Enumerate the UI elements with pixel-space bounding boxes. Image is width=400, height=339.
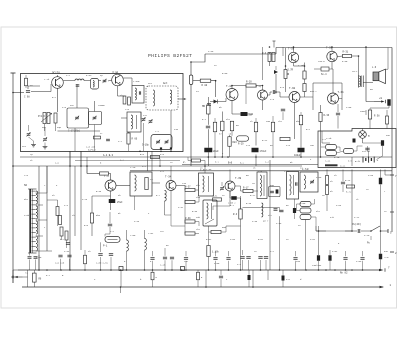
wire vert x39: [38, 166, 40, 270]
resistor R60: [127, 133, 138, 144]
svg-text:C-8: C-8: [62, 106, 67, 109]
junction dot bus: [185, 269, 187, 271]
wire extra: [171, 215, 185, 226]
wire C65 link: [222, 191, 241, 209]
label C-7 at 118,142: [118, 140, 123, 143]
label batt plus: [358, 159, 379, 163]
label L-5 at 258,172: [258, 170, 263, 173]
wire lamp leads: [362, 129, 364, 144]
junction dot: [12, 165, 14, 167]
junction dot: [214, 156, 216, 158]
label low 1: [44, 226, 46, 229]
svg-text:0.5u: 0.5u: [86, 74, 92, 77]
wire left vertical rail: [12, 73, 14, 283]
capacitor C23: [66, 243, 70, 245]
svg-text:R-37: R-37: [185, 186, 191, 189]
capacitor C66: [365, 148, 369, 150]
power box outline: [318, 129, 396, 168]
resistor R43: [65, 231, 68, 240]
wire R63 stems: [84, 250, 86, 270]
resistor R56 h: [300, 208, 311, 213]
label 1k at 72,216: [72, 214, 75, 217]
label S-5 at 125,110: [125, 108, 130, 111]
junction dot: [255, 156, 257, 158]
resistor R48 h: [185, 200, 195, 203]
svg-text:R-2: R-2: [52, 96, 57, 99]
wire R53 link: [235, 186, 258, 191]
label R37: [325, 160, 331, 163]
transistor T59: [327, 51, 337, 61]
label 0.1 at 230,206: [230, 204, 235, 207]
label 10k at 196,218: [196, 216, 201, 219]
tuner section box: [21, 74, 184, 152]
svg-text:T-39: T-39: [235, 177, 242, 180]
capacitor C40: [246, 257, 250, 259]
label 1.78k at 298,66: [298, 64, 305, 67]
resistor R0 corner: [25, 75, 28, 88]
resistor R32: [303, 71, 306, 79]
svg-text:2.: 2.: [183, 161, 186, 164]
wire extra: [92, 195, 111, 197]
label band x: [310, 158, 312, 161]
label 5n at 270,146: [270, 144, 273, 147]
resistor R28: [299, 115, 302, 125]
label 680 at 222,228: [222, 226, 227, 229]
svg-text:10k: 10k: [196, 216, 201, 219]
wire extra: [120, 287, 122, 293]
wire quad frame: [294, 48, 343, 111]
junction dot: [269, 46, 271, 48]
trimmer C6: [103, 79, 107, 83]
wire pu left: [316, 211, 357, 231]
svg-text:100u: 100u: [360, 110, 366, 113]
label C-55 at 214,264: [214, 262, 220, 265]
svg-text:C-55: C-55: [214, 262, 220, 265]
electrolytic below bus 2: [282, 270, 291, 287]
svg-text:S-6: S-6: [24, 174, 29, 177]
wire R58v stems: [369, 108, 371, 129]
svg-text:64u: 64u: [384, 250, 389, 253]
label N-11: [340, 165, 346, 168]
svg-text:R-29: R-29: [238, 143, 244, 146]
svg-text:S-1b: S-1b: [326, 137, 332, 140]
wire stage2 tops: [171, 166, 241, 186]
resistor R40: [56, 207, 59, 216]
label 0.5 at 280,88: [280, 86, 285, 89]
wire TR1 bottom drops: [30, 253, 36, 270]
volume pot P1: [103, 237, 120, 248]
label 6k8 at 296,122: [296, 120, 301, 123]
resistor bottom small: [94, 136, 101, 139]
svg-text:25uF: 25uF: [117, 201, 123, 204]
svg-text:C-28: C-28: [82, 198, 88, 201]
rounded resistor R29: [237, 136, 249, 146]
junction dot: [358, 55, 360, 57]
svg-text:C24 C25: C24 C25: [55, 262, 65, 265]
wire bus y270: [18, 269, 381, 271]
wire R54 stems: [240, 196, 242, 270]
electrolytic C21: [381, 140, 384, 146]
transistor T58: [288, 52, 298, 62]
label L8: [252, 182, 269, 223]
capacitor C42: [264, 257, 268, 259]
svg-text:L-50: L-50: [130, 234, 136, 237]
svg-text:C 68: C 68: [24, 96, 30, 99]
resistor R27: [271, 122, 274, 132]
electrolytic below bus 1: [248, 270, 251, 287]
capacitor above bus at 186: [184, 251, 188, 270]
label TR1: [24, 184, 28, 187]
label 40u at 386,136: [386, 134, 391, 137]
label 100u at 360,112: [360, 110, 366, 113]
wire trim links: [29, 125, 46, 147]
wire top rail step: [275, 48, 277, 55]
svg-text:R-39: R-39: [185, 217, 191, 220]
wire power internal: [321, 143, 383, 160]
label K-6 at 160,155: [160, 153, 165, 156]
dial lamp LP1: [359, 131, 370, 139]
wire R61 stems: [270, 53, 274, 67]
label R49: [185, 217, 191, 220]
label C-44 at 64,252: [64, 250, 70, 253]
driver can T10: [130, 172, 152, 196]
svg-text:1.10k: 1.10k: [212, 251, 220, 254]
wire T60 T61 link: [300, 97, 342, 99]
svg-text:T-34: T-34: [165, 176, 172, 179]
wire R45 v: [91, 196, 93, 236]
svg-text:A-4 B-3: A-4 B-3: [103, 154, 114, 157]
junction dot: [86, 165, 88, 167]
bus287 dots: [120, 286, 254, 288]
electrolytic C36: [317, 255, 320, 261]
capacitor C30: [170, 257, 174, 259]
label band C-1: [142, 165, 146, 168]
capacitor C28: [109, 254, 113, 256]
label band 0.1: [215, 161, 219, 164]
capacitor C63: [341, 182, 345, 184]
svg-text:40u: 40u: [386, 134, 391, 137]
label term 7b: [388, 267, 390, 270]
capacitor C33: [274, 209, 284, 212]
svg-text:+9: +9: [379, 97, 383, 100]
label 1n at 30,86: [30, 84, 33, 87]
svg-text:R-33: R-33: [96, 190, 102, 193]
svg-text:2.2k: 2.2k: [44, 78, 50, 81]
resistor R55 h: [300, 202, 311, 207]
label B-11 at 355,162: [355, 160, 361, 163]
label band 0.5: [348, 160, 352, 163]
svg-text:680: 680: [222, 226, 227, 229]
wire divider y166: [13, 165, 302, 167]
svg-text:C-61: C-61: [310, 238, 316, 241]
coil L4: [75, 79, 84, 81]
junction dot: [293, 46, 295, 48]
label div2: [183, 161, 186, 164]
svg-text:Pu(2D): Pu(2D): [352, 223, 362, 226]
wire L7 stem: [164, 201, 166, 215]
junction dot: [159, 165, 161, 167]
wire vert x47: [46, 166, 48, 251]
label low 4k7: [268, 214, 272, 217]
bal pot: [284, 69, 294, 79]
resistor MR: [202, 105, 210, 114]
svg-text:C-54: C-54: [230, 238, 236, 241]
junction dot: [318, 230, 320, 232]
label T44: [226, 85, 233, 88]
resistor R3: [54, 113, 57, 123]
wire TR2 top: [358, 56, 360, 75]
label P-2 at 110,232: [110, 230, 115, 233]
label band 1k: [253, 167, 256, 170]
junction dot bus: [120, 269, 122, 271]
label osc at 70,106: [70, 104, 75, 107]
label plus9: [379, 97, 383, 100]
capacitor above bus at 362: [360, 251, 364, 270]
label 150 at 266,122: [266, 120, 271, 123]
label 2k2 at 278,122: [278, 120, 283, 123]
junction dot: [190, 61, 192, 63]
switch arm pu: [361, 226, 380, 232]
coil L5: [127, 240, 129, 251]
label + at 222,154: [222, 152, 224, 155]
wire lower box top: [130, 170, 392, 172]
wire extra: [385, 170, 390, 176]
wire diode link: [210, 98, 226, 102]
label 2.2k at 44,80: [44, 78, 50, 81]
wire C52 wires: [232, 101, 253, 115]
svg-text:R-2: R-2: [306, 128, 311, 131]
label L-2 at 155,132: [155, 130, 160, 133]
svg-text:ant: ant: [148, 82, 153, 85]
wire C60 stems: [333, 104, 338, 129]
label 5n at 166,246: [166, 244, 169, 247]
label Rn82: [340, 272, 348, 275]
label C36: [312, 264, 322, 267]
electrolytic C16: [204, 148, 219, 153]
label C-2 at 270,252: [270, 250, 275, 253]
svg-text:1n5: 1n5: [296, 260, 301, 263]
diode AA119: [274, 70, 278, 74]
transistor T44: [226, 89, 238, 101]
antenna coil A2: [170, 90, 172, 104]
svg-text:T-10: T-10: [130, 166, 136, 169]
resistor R41: [59, 216, 62, 225]
label band 7n: [170, 161, 173, 164]
wire T59 to R31: [337, 55, 358, 58]
capacitor C9b: [106, 139, 110, 141]
wire M1 to C6: [99, 80, 112, 81]
label R22: [219, 133, 232, 136]
wire R80 right: [211, 81, 216, 97]
wire IF col extras: [273, 103, 301, 158]
label 6 at 150,262: [150, 260, 152, 263]
label C27: [96, 262, 109, 265]
wire T47 down: [256, 100, 263, 166]
svg-text:25u: 25u: [310, 144, 315, 147]
svg-text:4.7uF: 4.7uF: [302, 168, 310, 171]
capacitor C35 pu: [358, 229, 360, 233]
trimmer C14b: [149, 119, 153, 123]
battery terminal cluster: [25, 270, 42, 287]
label a at 94,280: [94, 278, 96, 281]
svg-text:R 58: R 58: [374, 115, 380, 118]
svg-text:L-51: L-51: [148, 232, 154, 235]
electrolytic C37: [328, 255, 331, 261]
svg-text:MR: MR: [202, 105, 206, 108]
label T16: [302, 168, 310, 171]
resistor R39: [386, 116, 389, 124]
tall coil L8: [257, 172, 267, 217]
capacitor C19: [281, 109, 285, 111]
label C-2 at 160,172: [160, 170, 165, 173]
coil can M1: [91, 79, 99, 90]
svg-text:osc: osc: [70, 104, 75, 107]
svg-text:C-3: C-3: [270, 98, 275, 101]
label low C-61: [310, 238, 316, 241]
svg-text:T-60: T-60: [289, 87, 296, 90]
svg-text:S-1: S-1: [322, 138, 327, 141]
capacitor above bus at 215: [213, 251, 217, 270]
resistor R58 h: [151, 155, 160, 158]
label 4x1.5V at 362,152: [362, 150, 371, 153]
wire x352 drop: [351, 170, 353, 232]
svg-text:R-40: R-40: [246, 202, 252, 205]
label OC170 T1: [52, 72, 60, 75]
wire x87 stub: [86, 157, 88, 166]
transistor T61: [328, 93, 339, 104]
label low b-2: [60, 238, 64, 241]
coil-cap can M2: [132, 86, 144, 104]
svg-text:4k7: 4k7: [226, 118, 231, 121]
svg-text:N-11: N-11: [340, 165, 346, 168]
label 30p at 270,186: [270, 184, 275, 187]
wire pu to terminal: [380, 230, 388, 232]
label T-15 at 284,172: [284, 170, 290, 173]
svg-text:OC170: OC170: [52, 72, 60, 75]
label T59: [326, 47, 333, 50]
wire elcap row: [366, 102, 389, 109]
wire C68 to T1: [31, 84, 51, 92]
label 4k7 at 316,212: [316, 210, 321, 213]
junction dot: [80, 165, 82, 167]
svg-text:R-20: R-20: [246, 81, 252, 84]
capacitor C24: [58, 255, 62, 257]
capacitor C41: [258, 257, 262, 259]
label ant trim: [22, 145, 27, 148]
svg-text:R-51: R-51: [258, 238, 264, 241]
svg-text:R-31: R-31: [343, 51, 349, 54]
svg-text:T-61: T-61: [338, 91, 345, 94]
transistor T2: [112, 74, 124, 86]
resistor pair R61: [262, 52, 275, 62]
svg-text:C-68: C-68: [336, 204, 342, 207]
label low a: [148, 212, 150, 215]
wire vert x75: [74, 166, 76, 236]
label B-6 at 140,155: [140, 153, 145, 156]
bus junction dots: [38, 269, 381, 271]
svg-text:0.1: 0.1: [46, 274, 51, 277]
label Pu small: [367, 236, 371, 245]
transistor T14: [225, 181, 235, 191]
label band R-1: [240, 162, 244, 165]
resistor R80: [200, 79, 211, 87]
power box inner wires: [322, 131, 332, 143]
junction dot: [262, 85, 264, 87]
label T-10 at 130,168: [130, 166, 136, 169]
resistor R47 h: [185, 188, 195, 191]
wire x147 drop: [147, 151, 149, 171]
label R47: [185, 186, 191, 189]
svg-text:C-81: C-81: [332, 250, 338, 253]
wire C64 stems: [380, 170, 382, 254]
label low 7: [384, 190, 386, 193]
resistor R37 h: [326, 145, 337, 150]
label C-17: [68, 130, 80, 133]
capacitor above bus at 228: [226, 251, 230, 270]
label TR-2 at 352,72: [352, 70, 358, 73]
label 0.9R at 342,62: [342, 60, 348, 63]
svg-text:C-58: C-58: [346, 106, 352, 109]
label R-5 at 84,226: [84, 224, 89, 227]
svg-text:R-38: R-38: [192, 210, 198, 213]
wire extra: [262, 47, 264, 80]
label T12: [200, 169, 206, 172]
resistor R49 h: [185, 220, 195, 223]
svg-text:S-6b: S-6b: [24, 214, 30, 217]
wire top rail drop x205: [191, 54, 205, 62]
junction dot bus: [334, 269, 336, 271]
label R-52 at 206,240: [206, 238, 212, 241]
terminal t1: [390, 284, 392, 287]
label 70n at 184,262: [184, 260, 189, 263]
label 4p at 100,76: [100, 74, 103, 77]
label tr at 100,134: [100, 132, 103, 135]
svg-text:TR-2: TR-2: [352, 70, 358, 73]
trimmer C13: [142, 117, 146, 121]
wire bus y287: [22, 286, 383, 288]
resistor R59 h: [192, 159, 201, 162]
electrolytic C38: [379, 254, 389, 260]
wire F1 up: [190, 62, 192, 75]
transistor T11: [166, 181, 176, 191]
wire bus y287 arrowhead: [380, 286, 385, 289]
label B at 62,276: [62, 274, 64, 277]
wire extra: [245, 86, 247, 105]
horizontal line y131: [58, 130, 101, 132]
mid coil can M3: [127, 112, 141, 132]
resistor R23: [228, 137, 237, 147]
IF can T15: [287, 172, 299, 200]
label low R-38: [192, 210, 198, 213]
label 2k2 at 196,230: [196, 228, 201, 231]
junction dot bus: [362, 269, 364, 271]
terminal arrow plus9: [374, 100, 386, 103]
label low 1n: [222, 194, 225, 197]
wire C38 stem: [380, 259, 382, 270]
connector sq1: [119, 267, 123, 271]
wire MR chain: [207, 97, 209, 166]
svg-text:PHILIPS B2F52T: PHILIPS B2F52T: [148, 53, 192, 59]
label low C-48: [134, 220, 140, 223]
coil L6: [145, 239, 147, 251]
tuning gang box: [67, 108, 89, 128]
label C-33 at 276,224: [276, 222, 282, 225]
wire thermistor: [314, 68, 333, 70]
switch contact dark: [353, 139, 356, 143]
label R-11 at 262,141: [262, 139, 268, 142]
wire M3 links: [121, 110, 171, 151]
label 2x500 at 98,106: [98, 104, 105, 107]
